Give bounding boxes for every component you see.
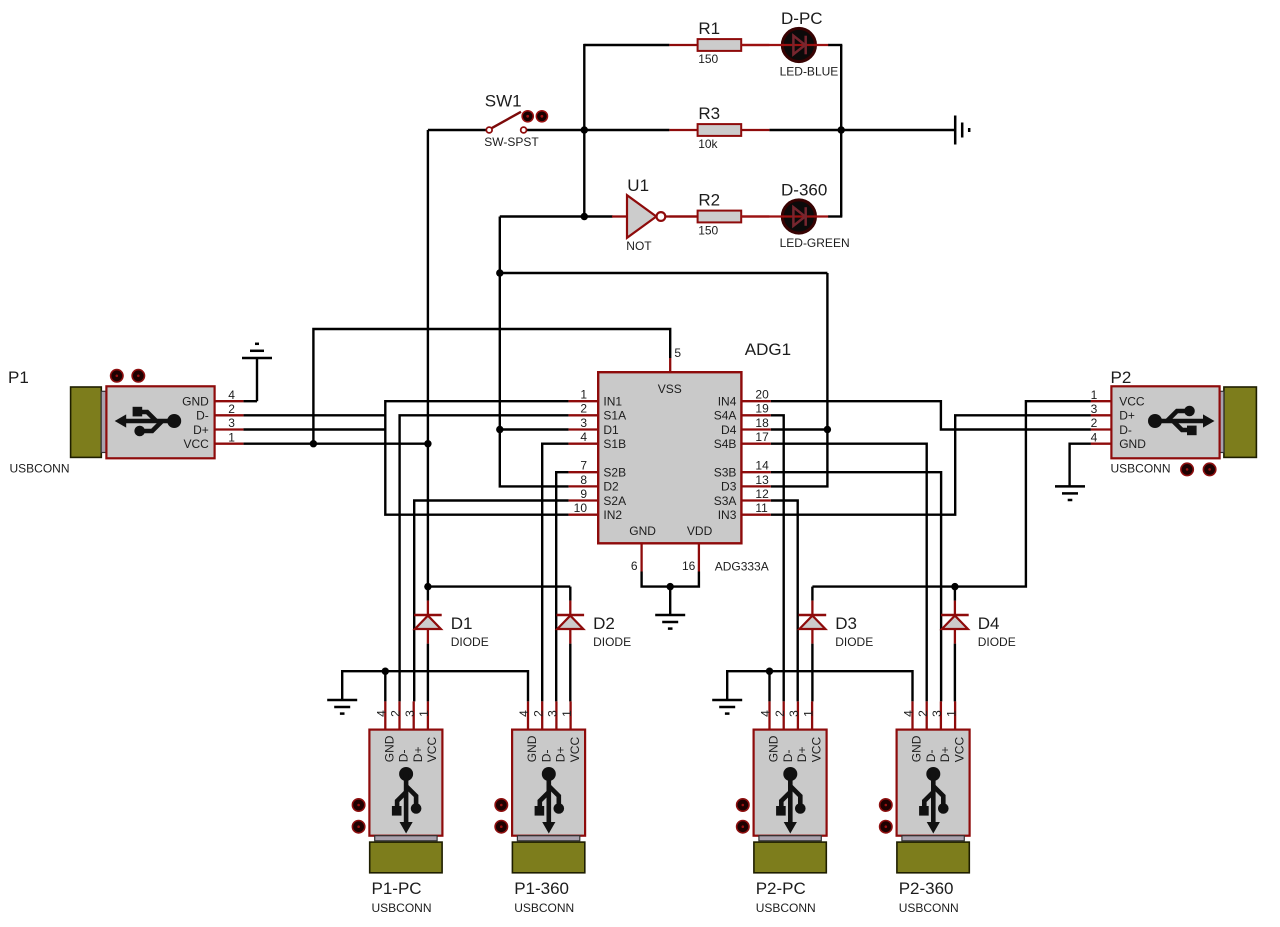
wire [771, 415, 1091, 514]
svg-text:2: 2 [531, 710, 545, 717]
svg-text:U1: U1 [627, 176, 649, 195]
wire [427, 130, 429, 587]
svg-text:4: 4 [375, 710, 389, 717]
svg-text:VSS: VSS [658, 382, 682, 396]
wire [583, 44, 585, 217]
inverter U1 [612, 176, 698, 253]
svg-text:D+: D+ [795, 747, 809, 763]
wire [771, 415, 784, 701]
svg-text:3: 3 [403, 710, 417, 717]
svg-text:3: 3 [787, 710, 801, 717]
svg-text:3: 3 [930, 710, 944, 717]
wire [812, 401, 1091, 586]
svg-text:GND: GND [767, 735, 781, 762]
svg-text:USBCONN: USBCONN [514, 901, 574, 915]
svg-text:USBCONN: USBCONN [372, 901, 432, 915]
svg-text:D-: D- [781, 750, 795, 763]
wire [771, 273, 828, 486]
ground (below ADG1) [655, 614, 685, 617]
wire [500, 272, 828, 274]
svg-text:DIODE: DIODE [978, 635, 1016, 649]
junction [496, 426, 503, 433]
wire [342, 671, 528, 701]
svg-text:D+: D+ [193, 423, 209, 437]
svg-text:SW-SPST: SW-SPST [484, 135, 539, 149]
svg-text:GND: GND [1119, 437, 1146, 451]
wire [569, 644, 571, 702]
resistor R2 [669, 190, 769, 237]
svg-text:12: 12 [755, 487, 769, 501]
svg-text:4: 4 [759, 710, 773, 717]
wire [584, 129, 669, 131]
wire [500, 428, 569, 430]
svg-text:S4B: S4B [714, 437, 737, 451]
diode D1 [414, 601, 489, 650]
svg-text:D-: D- [924, 750, 938, 763]
LED D-PC [741, 9, 838, 79]
svg-text:IN3: IN3 [718, 508, 737, 522]
junction [382, 668, 389, 675]
svg-text:150: 150 [698, 52, 718, 66]
svg-text:13: 13 [755, 473, 769, 487]
wire [771, 472, 941, 701]
svg-text:150: 150 [698, 223, 718, 237]
junction [824, 426, 831, 433]
wire [427, 587, 429, 601]
svg-text:S1B: S1B [603, 437, 626, 451]
svg-text:4: 4 [580, 430, 587, 444]
svg-text:VCC: VCC [1119, 395, 1145, 409]
svg-text:D+: D+ [411, 747, 425, 763]
svg-text:2: 2 [580, 402, 587, 416]
USB connector P2-PC [737, 701, 827, 915]
svg-text:4: 4 [902, 710, 916, 717]
svg-text:NOT: NOT [626, 239, 652, 253]
junction [667, 583, 674, 590]
wire [584, 44, 669, 46]
svg-text:D2: D2 [603, 480, 619, 494]
junction [838, 126, 845, 133]
junction [951, 583, 958, 590]
svg-text:3: 3 [580, 416, 587, 430]
svg-text:D4: D4 [978, 614, 1000, 633]
ground (above P1 GND) [242, 357, 272, 360]
svg-text:GND: GND [182, 395, 209, 409]
svg-text:1: 1 [417, 710, 431, 717]
svg-text:7: 7 [580, 459, 587, 473]
svg-text:10k: 10k [698, 137, 718, 151]
junction [766, 668, 773, 675]
svg-text:USBCONN: USBCONN [10, 461, 70, 475]
svg-text:20: 20 [755, 388, 769, 402]
svg-text:LED-BLUE: LED-BLUE [780, 65, 839, 79]
ground (P2 GND) [1055, 485, 1085, 488]
svg-text:2: 2 [1091, 416, 1098, 430]
svg-text:D2: D2 [593, 614, 615, 633]
wire [771, 401, 1091, 429]
wire [828, 215, 842, 217]
svg-text:D+: D+ [1119, 409, 1135, 423]
svg-text:3: 3 [546, 710, 560, 717]
svg-text:D1: D1 [451, 614, 473, 633]
svg-text:USBCONN: USBCONN [899, 901, 959, 915]
wire [771, 444, 927, 702]
svg-text:10: 10 [574, 501, 588, 515]
svg-text:2: 2 [389, 710, 403, 717]
svg-text:USBCONN: USBCONN [756, 901, 816, 915]
svg-text:R2: R2 [698, 190, 720, 209]
svg-text:9: 9 [580, 487, 587, 501]
svg-text:R3: R3 [698, 104, 720, 123]
svg-text:P1: P1 [8, 368, 29, 387]
wire [384, 671, 386, 701]
svg-text:DIODE: DIODE [835, 635, 873, 649]
svg-text:S4A: S4A [714, 409, 737, 423]
wire [256, 358, 258, 402]
wire [771, 501, 798, 702]
wire [771, 428, 828, 430]
svg-text:D+: D+ [554, 747, 568, 763]
wire [954, 587, 956, 601]
svg-text:VCC: VCC [425, 737, 439, 763]
svg-text:1: 1 [801, 710, 815, 717]
wire [811, 587, 813, 601]
wire [768, 671, 770, 701]
junction [310, 440, 317, 447]
svg-text:D-360: D-360 [781, 181, 827, 200]
svg-text:17: 17 [755, 430, 769, 444]
wire [642, 572, 699, 587]
svg-text:VCC: VCC [183, 437, 209, 451]
wire [427, 644, 429, 702]
svg-text:VCC: VCC [952, 737, 966, 763]
ground (left rail) [327, 699, 357, 702]
wire [727, 671, 912, 701]
resistor R1 [669, 19, 769, 66]
wire [243, 414, 385, 416]
junction [424, 583, 431, 590]
svg-text:P2-PC: P2-PC [756, 879, 806, 898]
svg-text:GND: GND [525, 735, 539, 762]
svg-text:P1-360: P1-360 [514, 879, 569, 898]
svg-text:GND: GND [383, 735, 397, 762]
svg-text:D3: D3 [721, 480, 737, 494]
wire [243, 443, 428, 445]
svg-text:IN1: IN1 [603, 395, 622, 409]
svg-text:DIODE: DIODE [593, 635, 631, 649]
wire [542, 444, 568, 702]
LED D-360 [741, 181, 849, 251]
svg-text:18: 18 [755, 416, 769, 430]
ground (right rail) [712, 699, 742, 702]
svg-text:P1-PC: P1-PC [372, 879, 422, 898]
svg-text:S2A: S2A [603, 494, 626, 508]
svg-text:3: 3 [228, 416, 235, 430]
wire [954, 644, 956, 702]
svg-text:VDD: VDD [687, 524, 713, 538]
junction [496, 269, 503, 276]
svg-text:4: 4 [228, 388, 235, 402]
wire [500, 217, 569, 487]
wire [828, 44, 842, 46]
svg-text:D-: D- [196, 409, 209, 423]
svg-text:GND: GND [629, 524, 656, 538]
svg-text:2: 2 [228, 402, 235, 416]
USB connector P2 [1111, 386, 1256, 458]
svg-text:4: 4 [517, 710, 531, 717]
svg-text:11: 11 [755, 501, 768, 515]
svg-text:D-: D- [397, 750, 411, 763]
svg-text:R1: R1 [698, 19, 720, 38]
wire [526, 129, 584, 131]
junction [424, 440, 431, 447]
svg-text:14: 14 [755, 459, 769, 473]
USB connector P1-PC [352, 701, 442, 915]
svg-text:D4: D4 [721, 423, 737, 437]
svg-text:D3: D3 [835, 614, 857, 633]
svg-text:IN2: IN2 [603, 508, 622, 522]
svg-text:P2: P2 [1111, 368, 1132, 387]
wire [428, 129, 487, 131]
svg-text:D+: D+ [938, 747, 952, 763]
wire [1070, 444, 1091, 487]
svg-text:P2-360: P2-360 [899, 879, 954, 898]
svg-text:D-: D- [1119, 423, 1132, 437]
svg-text:19: 19 [755, 402, 769, 416]
svg-text:5: 5 [674, 346, 681, 360]
svg-text:1: 1 [228, 430, 235, 444]
diode D3 [799, 601, 874, 650]
svg-text:16: 16 [682, 559, 696, 573]
svg-text:1: 1 [944, 710, 958, 717]
svg-text:1: 1 [1091, 388, 1098, 402]
USB connector P1 [71, 386, 215, 458]
svg-text:VCC: VCC [568, 737, 582, 763]
svg-text:2: 2 [773, 710, 787, 717]
svg-text:IN4: IN4 [718, 395, 737, 409]
USB connector P1-360 [495, 701, 585, 915]
wire [428, 585, 570, 587]
svg-text:2: 2 [916, 710, 930, 717]
wire [769, 129, 954, 131]
wire [414, 501, 568, 702]
svg-text:6: 6 [631, 559, 638, 573]
diode D4 [941, 601, 1016, 650]
wire [840, 45, 842, 217]
svg-text:VCC: VCC [809, 737, 823, 763]
svg-text:S3B: S3B [714, 466, 737, 480]
svg-text:D1: D1 [603, 423, 619, 437]
svg-text:8: 8 [580, 473, 587, 487]
wire [313, 329, 670, 444]
wire [811, 644, 813, 702]
ground (right of R3) [954, 116, 957, 145]
svg-text:S2B: S2B [603, 466, 626, 480]
svg-text:1: 1 [580, 388, 587, 402]
wire [243, 428, 385, 430]
wire [385, 401, 568, 515]
svg-text:S3A: S3A [714, 494, 737, 508]
wire [569, 587, 571, 601]
svg-text:USBCONN: USBCONN [1111, 461, 1171, 475]
switch SW1 [484, 92, 547, 150]
wire [243, 400, 257, 402]
wire [400, 415, 569, 701]
svg-text:D-PC: D-PC [781, 9, 823, 28]
wire [500, 215, 613, 217]
USB connector P2-360 [880, 701, 970, 915]
resistor R3 [669, 104, 769, 151]
svg-text:LED-GREEN: LED-GREEN [780, 236, 850, 250]
analog switch IC ADG1 (ADG333A) [569, 340, 791, 573]
svg-text:SW1: SW1 [485, 92, 522, 111]
svg-text:S1A: S1A [603, 409, 626, 423]
junction [581, 126, 588, 133]
wire [556, 472, 568, 701]
svg-text:D-: D- [539, 750, 553, 763]
junction [581, 213, 588, 220]
svg-text:1: 1 [560, 710, 574, 717]
svg-text:3: 3 [1091, 402, 1098, 416]
svg-text:DIODE: DIODE [451, 635, 489, 649]
svg-text:ADG1: ADG1 [745, 340, 791, 359]
diode D2 [557, 601, 632, 650]
svg-text:GND: GND [910, 735, 924, 762]
svg-text:4: 4 [1091, 430, 1098, 444]
wire [669, 587, 671, 615]
svg-text:ADG333A: ADG333A [715, 559, 769, 573]
